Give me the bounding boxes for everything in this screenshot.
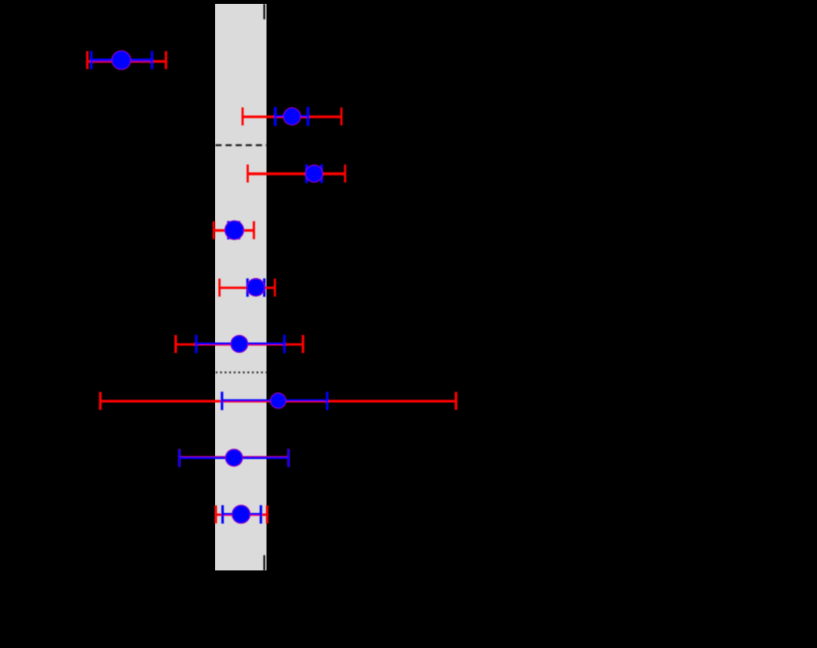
row 5 blue errorbar bbox=[248, 278, 265, 296]
row 3 red errorbar bbox=[248, 165, 345, 183]
row 3 point bbox=[305, 165, 323, 183]
row 5 red errorbar bbox=[220, 279, 275, 297]
row 2 point bbox=[283, 107, 301, 125]
row 6 point bbox=[230, 335, 248, 353]
gray reference band bbox=[215, 4, 266, 571]
row 8 point bbox=[225, 449, 243, 467]
row 9 point bbox=[232, 505, 251, 524]
row 1 blue errorbar bbox=[91, 51, 152, 69]
row 8 purple overlap bbox=[179, 456, 288, 458]
row 7 red errorbar bbox=[100, 392, 456, 410]
row 4 red errorbar bbox=[214, 221, 254, 239]
row 7 point bbox=[270, 393, 286, 409]
row 1 point bbox=[111, 50, 131, 70]
row 6 red errorbar bbox=[176, 335, 303, 353]
row 3 blue errorbar bbox=[307, 164, 322, 183]
row 8 red errorbar bbox=[179, 449, 288, 467]
row 4 blue errorbar bbox=[228, 221, 239, 239]
row 7 blue errorbar bbox=[222, 392, 327, 410]
row 1 red errorbar bbox=[87, 51, 166, 69]
row 9 red errorbar bbox=[216, 505, 267, 523]
row 5 point bbox=[247, 278, 266, 297]
reference vline bottom tick bbox=[263, 555, 265, 570]
row 9 blue errorbar bbox=[223, 505, 261, 523]
row 8 blue errorbar bbox=[179, 449, 288, 467]
row 2 blue errorbar bbox=[275, 107, 308, 126]
dashed divider bbox=[215, 144, 267, 146]
row 9 purple overlap bbox=[223, 513, 261, 515]
row 2 red errorbar bbox=[243, 107, 342, 125]
dotted divider bbox=[216, 371, 267, 373]
row 6 purple overlap bbox=[196, 343, 284, 345]
row 7 purple overlap bbox=[222, 400, 327, 402]
row 6 blue errorbar bbox=[196, 335, 284, 353]
reference vline top tick bbox=[263, 4, 265, 19]
row 4 point bbox=[224, 220, 244, 240]
row 1 purple overlap bbox=[91, 60, 152, 62]
